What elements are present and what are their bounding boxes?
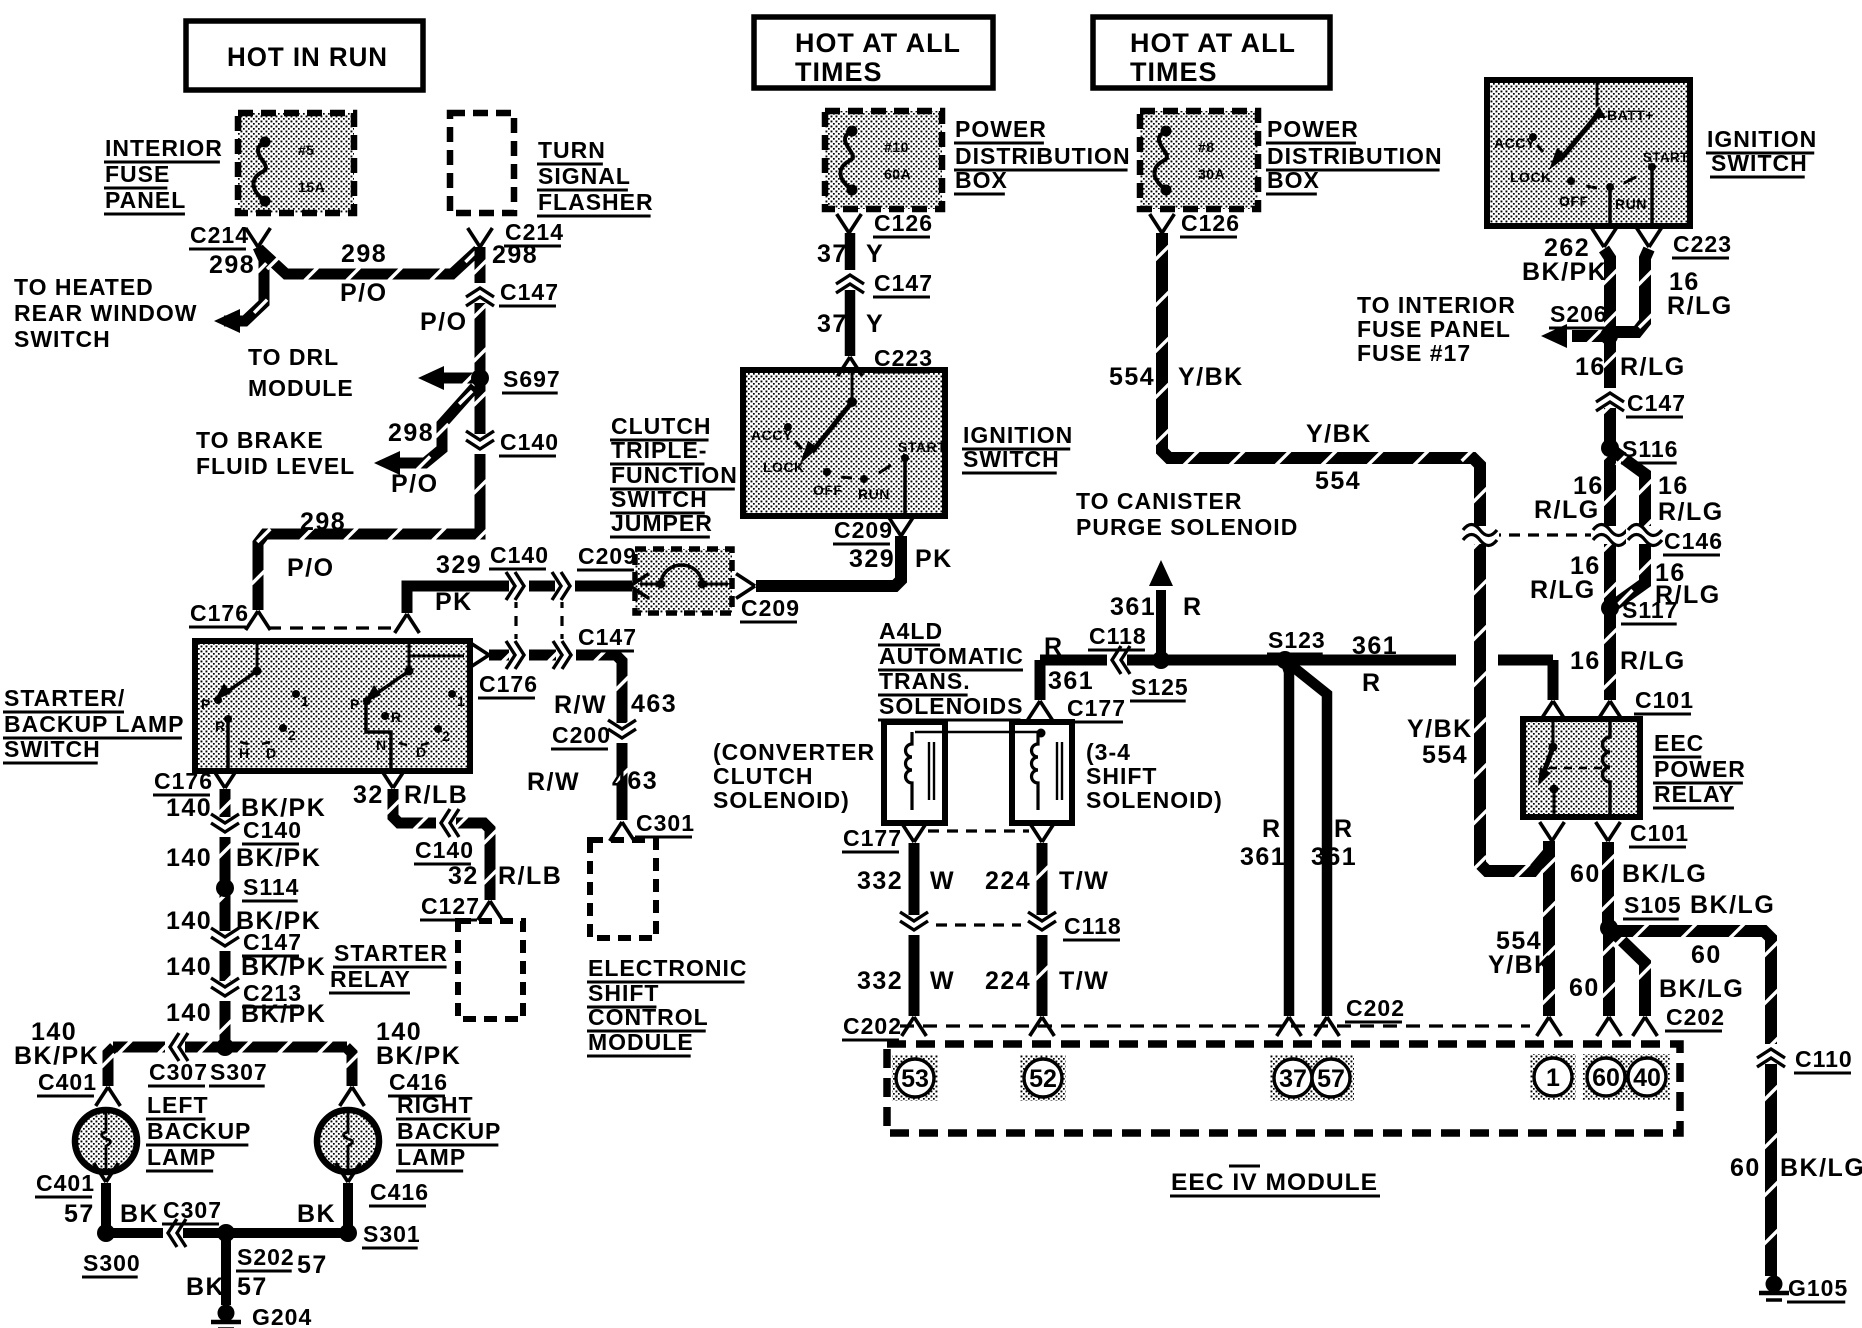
svg-text:P: P [350,696,359,712]
svg-text:#10: #10 [884,139,909,155]
svg-text:C200: C200 [552,722,611,748]
svg-text:R: R [1262,815,1282,843]
svg-text:RELAY: RELAY [1654,781,1735,807]
svg-text:SIGNAL: SIGNAL [538,163,631,189]
svg-text:R: R [1183,593,1203,621]
svg-text:FUNCTION: FUNCTION [611,462,738,488]
svg-text:BK/PK: BK/PK [241,953,326,981]
svg-text:P/O: P/O [420,308,468,336]
svg-text:C307: C307 [149,1059,208,1085]
svg-text:FUSE: FUSE [105,161,170,187]
svg-text:H: H [239,745,249,761]
svg-text:C202: C202 [1666,1004,1725,1030]
svg-text:G105: G105 [1788,1275,1848,1301]
svg-text:361: 361 [1352,632,1398,660]
svg-text:463: 463 [612,767,658,795]
svg-text:R/LB: R/LB [498,862,562,890]
svg-text:C147: C147 [243,929,302,955]
svg-text:FLASHER: FLASHER [538,189,654,215]
svg-text:R: R [215,718,225,734]
svg-text:W: W [930,867,955,895]
svg-text:D: D [266,745,276,761]
svg-text:224: 224 [985,967,1031,995]
svg-text:298: 298 [341,240,387,268]
svg-text:C118: C118 [1089,623,1147,649]
svg-text:C147: C147 [500,279,559,305]
svg-text:S116: S116 [1622,436,1678,462]
svg-text:140: 140 [166,999,212,1027]
svg-text:60: 60 [1592,1064,1620,1092]
svg-text:S301: S301 [363,1221,421,1247]
svg-text:SWITCH: SWITCH [611,486,708,512]
svg-text:R/W: R/W [554,691,607,719]
svg-text:START: START [898,439,946,455]
svg-text:D: D [416,744,426,760]
svg-text:S117: S117 [1622,597,1678,623]
svg-text:BK: BK [120,1200,159,1228]
svg-text:MODULE: MODULE [588,1029,694,1055]
svg-text:S125: S125 [1131,674,1189,700]
svg-text:R/LG: R/LG [1620,353,1686,381]
svg-text:C177: C177 [843,825,902,851]
svg-text:(CONVERTER: (CONVERTER [713,739,875,765]
svg-text:298: 298 [300,508,346,536]
svg-text:R/LB: R/LB [404,781,468,809]
svg-text:R/LG: R/LG [1658,498,1724,526]
svg-text:C176: C176 [190,600,249,626]
svg-text:298: 298 [209,251,255,279]
svg-text:(3-4: (3-4 [1086,739,1131,765]
svg-text:C223: C223 [1673,231,1732,257]
svg-text:POWER: POWER [1654,756,1746,782]
svg-text:R/LG: R/LG [1667,292,1733,320]
svg-text:CONTROL: CONTROL [588,1004,709,1030]
svg-text:TIMES: TIMES [795,57,883,87]
svg-text:OFF: OFF [1559,193,1589,209]
svg-text:60: 60 [1569,974,1600,1002]
svg-text:C416: C416 [370,1179,429,1205]
svg-text:40: 40 [1633,1064,1661,1092]
svg-text:30A: 30A [1198,166,1225,182]
svg-text:TO INTERIOR: TO INTERIOR [1357,292,1516,318]
svg-text:S114: S114 [243,874,299,900]
svg-text:BK/PK: BK/PK [236,844,321,872]
svg-text:C401: C401 [36,1170,95,1196]
svg-text:C209: C209 [578,543,637,569]
svg-text:R: R [391,709,401,725]
svg-text:ELECTRONIC: ELECTRONIC [588,955,748,981]
svg-text:C214: C214 [190,222,249,248]
svg-text:P/O: P/O [340,279,388,307]
svg-text:TURN: TURN [538,137,606,163]
svg-text:LEFT: LEFT [147,1092,209,1118]
svg-text:S307: S307 [210,1059,268,1085]
svg-text:INTERIOR: INTERIOR [105,135,223,161]
svg-text:C202: C202 [843,1013,902,1039]
svg-text:BK/PK: BK/PK [376,1042,461,1070]
svg-text:C140: C140 [243,817,302,843]
svg-text:DISTRIBUTION: DISTRIBUTION [1267,143,1443,169]
svg-text:LAMP: LAMP [147,1144,216,1170]
svg-text:140: 140 [166,844,212,872]
svg-text:C209: C209 [834,517,893,543]
svg-text:SWITCH: SWITCH [1711,150,1808,176]
svg-text:224: 224 [985,867,1031,895]
svg-text:C146: C146 [1664,528,1723,554]
svg-text:298: 298 [388,419,434,447]
svg-text:#5: #5 [298,142,315,158]
svg-text:32: 32 [353,781,384,809]
svg-text:57: 57 [64,1200,95,1228]
svg-text:TO HEATED: TO HEATED [14,274,154,300]
svg-text:TIMES: TIMES [1130,57,1218,87]
svg-text:BOX: BOX [1267,167,1320,193]
svg-text:LAMP: LAMP [397,1144,466,1170]
svg-text:140: 140 [166,794,212,822]
svg-text:PK: PK [915,545,953,573]
svg-text:R: R [1362,669,1382,697]
svg-text:S202: S202 [237,1244,295,1270]
svg-text:T/W: T/W [1059,967,1109,995]
svg-text:C126: C126 [874,210,933,236]
svg-text:POWER: POWER [955,116,1047,142]
svg-text:C307: C307 [163,1197,222,1223]
svg-text:SOLENOIDS: SOLENOIDS [879,693,1023,719]
svg-text:C176: C176 [479,671,538,697]
svg-text:52: 52 [1029,1065,1057,1093]
svg-text:1: 1 [1546,1064,1560,1092]
svg-text:R/LG: R/LG [1530,576,1596,604]
svg-text:C140: C140 [415,837,474,863]
svg-text:BATT+: BATT+ [1607,107,1654,123]
svg-text:REAR WINDOW: REAR WINDOW [14,300,197,326]
svg-text:START: START [1643,150,1689,165]
svg-text:554: 554 [1109,363,1155,391]
svg-text:53: 53 [901,1065,929,1093]
svg-text:Y/BK: Y/BK [1407,715,1473,743]
svg-text:C177: C177 [1067,695,1126,721]
svg-text:Y/BK: Y/BK [1306,420,1372,448]
svg-text:C110: C110 [1795,1046,1853,1072]
svg-text:IGNITION: IGNITION [963,422,1073,448]
svg-text:BK: BK [186,1273,225,1301]
svg-text:361: 361 [1110,593,1156,621]
svg-text:298: 298 [492,241,538,269]
svg-text:STARTER: STARTER [334,940,448,966]
svg-text:S697: S697 [503,366,561,392]
svg-text:1: 1 [301,693,309,709]
svg-text:R: R [1334,815,1354,843]
svg-text:CLUTCH: CLUTCH [713,763,814,789]
svg-text:37: 37 [817,310,848,338]
svg-text:OFF: OFF [813,482,843,498]
svg-text:C147: C147 [874,270,933,296]
svg-text:TRIPLE-: TRIPLE- [611,437,707,463]
svg-text:Y/BK: Y/BK [1488,951,1554,979]
svg-text:PURGE SOLENOID: PURGE SOLENOID [1076,514,1298,540]
svg-text:R: R [1044,633,1064,661]
svg-text:329: 329 [849,545,895,573]
svg-text:C223: C223 [874,345,933,371]
svg-text:37: 37 [817,240,848,268]
svg-text:STARTER/: STARTER/ [4,685,125,711]
svg-text:554: 554 [1315,467,1361,495]
svg-text:RELAY: RELAY [330,966,411,992]
svg-text:DISTRIBUTION: DISTRIBUTION [955,143,1131,169]
svg-text:TO BRAKE: TO BRAKE [196,427,324,453]
svg-text:HOT AT ALL: HOT AT ALL [795,28,961,58]
svg-text:T/W: T/W [1059,867,1109,895]
svg-text:W: W [930,967,955,995]
svg-text:SHIFT: SHIFT [588,980,659,1006]
svg-text:C140: C140 [500,429,559,455]
svg-text:C127: C127 [421,893,480,919]
svg-text:C147: C147 [578,624,637,650]
svg-text:463: 463 [631,690,677,718]
svg-text:G204: G204 [252,1304,312,1328]
svg-text:AUTOMATIC: AUTOMATIC [879,643,1024,669]
svg-text:TO CANISTER: TO CANISTER [1076,488,1242,514]
svg-text:POWER: POWER [1267,116,1359,142]
svg-text:C101: C101 [1630,820,1689,846]
svg-text:S123: S123 [1268,627,1326,653]
svg-text:BK/PK: BK/PK [241,1000,326,1028]
svg-text:LOCK: LOCK [1510,169,1552,185]
svg-text:PK: PK [435,588,473,616]
svg-text:C209: C209 [741,595,800,621]
svg-text:SOLENOID): SOLENOID) [1086,787,1223,813]
svg-text:BK/LG: BK/LG [1780,1154,1862,1182]
svg-text:Y: Y [866,310,884,338]
svg-text:R/LG: R/LG [1534,496,1600,524]
svg-text:S105: S105 [1624,892,1682,918]
svg-text:HOT AT ALL: HOT AT ALL [1130,28,1296,58]
svg-text:C416: C416 [389,1069,448,1095]
svg-text:SWITCH: SWITCH [14,326,111,352]
svg-text:BK/LG: BK/LG [1690,891,1775,919]
svg-text:SWITCH: SWITCH [963,446,1060,472]
svg-text:57: 57 [297,1251,328,1279]
svg-text:BACKUP: BACKUP [397,1118,501,1144]
svg-text:C301: C301 [636,810,695,836]
svg-text:R/LG: R/LG [1620,647,1686,675]
svg-text:57: 57 [1317,1065,1345,1093]
svg-text:60: 60 [1730,1154,1761,1182]
svg-text:C101: C101 [1635,687,1694,713]
svg-text:140: 140 [166,953,212,981]
svg-text:C202: C202 [1346,995,1405,1021]
svg-text:60: 60 [1691,941,1722,969]
svg-text:S206: S206 [1550,301,1608,327]
svg-text:C401: C401 [38,1069,97,1095]
svg-text:2: 2 [288,727,296,743]
svg-text:15A: 15A [298,179,325,195]
svg-text:332: 332 [857,967,903,995]
svg-text:S300: S300 [83,1250,141,1276]
svg-text:PANEL: PANEL [105,187,186,213]
svg-text:TO DRL: TO DRL [248,344,339,370]
svg-text:16: 16 [1658,472,1689,500]
svg-text:R/W: R/W [527,768,580,796]
svg-text:FUSE PANEL: FUSE PANEL [1357,316,1511,342]
svg-text:RUN: RUN [858,486,890,502]
svg-text:BK/PK: BK/PK [1522,258,1607,286]
svg-text:CLUTCH: CLUTCH [611,413,712,439]
svg-text:BACKUP LAMP: BACKUP LAMP [4,711,185,737]
svg-text:#8: #8 [1198,139,1215,155]
svg-text:2: 2 [442,728,450,744]
svg-text:57: 57 [237,1273,268,1301]
svg-text:EEC: EEC [1654,730,1704,756]
svg-text:LOCK: LOCK [763,459,805,475]
svg-text:C140: C140 [490,542,549,568]
svg-text:361: 361 [1311,843,1357,871]
svg-text:FUSE #17: FUSE #17 [1357,340,1471,366]
svg-text:C126: C126 [1181,210,1240,236]
svg-text:32: 32 [448,862,479,890]
svg-text:Y/BK: Y/BK [1178,363,1244,391]
svg-text:RUN: RUN [1615,196,1647,212]
svg-text:A4LD: A4LD [879,618,943,644]
svg-text:554: 554 [1422,741,1468,769]
svg-text:BK/LG: BK/LG [1659,975,1744,1003]
svg-text:60A: 60A [884,166,911,182]
svg-text:140: 140 [166,907,212,935]
svg-text:N: N [376,737,386,753]
svg-text:BOX: BOX [955,167,1008,193]
svg-text:37: 37 [1279,1065,1307,1093]
svg-text:HOT IN RUN: HOT IN RUN [227,42,388,72]
svg-text:C147: C147 [1627,390,1686,416]
svg-text:BK/LG: BK/LG [1622,860,1707,888]
svg-text:P/O: P/O [391,470,439,498]
svg-text:SWITCH: SWITCH [4,736,101,762]
svg-text:IGNITION: IGNITION [1707,126,1817,152]
svg-text:P: P [201,696,210,712]
svg-text:BK: BK [297,1200,336,1228]
svg-text:C118: C118 [1064,913,1122,939]
svg-text:361: 361 [1240,843,1286,871]
svg-text:BK/PK: BK/PK [14,1042,99,1070]
svg-text:361: 361 [1048,667,1094,695]
svg-text:JUMPER: JUMPER [611,510,713,536]
svg-text:16: 16 [1570,647,1601,675]
svg-text:60: 60 [1570,860,1601,888]
svg-text:MODULE: MODULE [248,375,354,401]
svg-text:FLUID LEVEL: FLUID LEVEL [196,453,355,479]
svg-text:BACKUP: BACKUP [147,1118,251,1144]
svg-text:1: 1 [457,693,465,709]
svg-text:16: 16 [1575,353,1606,381]
svg-text:SHIFT: SHIFT [1086,763,1157,789]
svg-text:C176: C176 [154,768,213,794]
svg-text:332: 332 [857,867,903,895]
svg-text:EEC IV MODULE: EEC IV MODULE [1171,1169,1378,1196]
svg-text:329: 329 [436,551,482,579]
svg-text:P/O: P/O [287,554,335,582]
svg-text:SOLENOID): SOLENOID) [713,787,850,813]
svg-text:TRANS.: TRANS. [879,668,971,694]
svg-text:Y: Y [866,240,884,268]
